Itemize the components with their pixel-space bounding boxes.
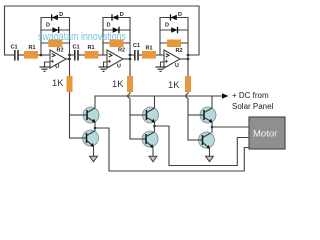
- wire: 1K-1 lead into base rail of pair1: [69, 92, 71, 138]
- wire: pair1 top collector to rail: [94, 96, 96, 108]
- transistor Q5 (pair3 top NPN): [200, 107, 216, 123]
- label D (stage 2 top): [120, 12, 124, 18]
- wire: pair2 top transistor base stub: [130, 114, 143, 116]
- svg-text:1K: 1K: [168, 79, 180, 90]
- label R1 (stage 3): [146, 46, 153, 52]
- wire: 1K-3 lead with hop over +DC rail: [186, 92, 189, 140]
- resistor R1 (stage 2): [85, 51, 99, 59]
- +DC rail arrowhead: [222, 93, 229, 99]
- ground (pair2 arrow): [149, 156, 157, 162]
- wire: pair3 top transistor base stub: [188, 114, 200, 116]
- wire: stage3 diode branch top: [160, 17, 188, 19]
- svg-text:C1: C1: [11, 45, 18, 51]
- wire: pair3 bottom emitter to ground: [209, 148, 211, 156]
- label R2 (stage 1): [57, 48, 64, 54]
- label + DC from Solar Panel: [232, 91, 274, 111]
- wire: pair3 emitter-collector junction vertical: [211, 122, 213, 133]
- svg-text:C1: C1: [73, 45, 80, 51]
- label 1K (stage 1): [52, 77, 64, 88]
- wire: pair1 output to motor: [95, 128, 249, 171]
- wire: stage1 output node vertical: [69, 18, 71, 77]
- label D (stage 3 top): [178, 12, 182, 18]
- diode D (stage 3 top, pointing left): [171, 14, 177, 20]
- wire: stage1 R2/diode box left vertical: [40, 18, 42, 56]
- label 1K (stage 3): [168, 79, 180, 90]
- op-amp U (stage 2): [107, 50, 123, 68]
- svg-text:swagatam innovations: swagatam innovations: [38, 31, 126, 43]
- label D (stage 1 second): [46, 23, 50, 29]
- transistor Q3 (pair2 top NPN): [143, 107, 159, 123]
- wire: pair1 top transistor base stub: [70, 114, 84, 116]
- node: stage2 output tap: [129, 54, 132, 61]
- label Motor: [253, 129, 277, 140]
- wire: op-amp U2 output stub: [123, 58, 130, 60]
- node: stage3 output tap: [187, 54, 190, 61]
- wire: pair1 emitter-collector junction vertical: [94, 122, 96, 131]
- svg-text:D: D: [178, 12, 182, 18]
- wire: stage1 input line: [5, 54, 51, 56]
- wire: stage1 diode branch second: [41, 29, 70, 31]
- svg-text:R1: R1: [88, 45, 95, 51]
- wire: U2 inverting input to ground: [104, 62, 108, 67]
- svg-text:R1: R1: [146, 46, 153, 52]
- wire: pair2 top collector to rail: [154, 96, 156, 108]
- label C1 (stage 2): [73, 45, 80, 51]
- label R2 (stage 2): [118, 48, 125, 54]
- diode D (stage 3 second, pointing right): [171, 27, 177, 33]
- transistor Q6 (pair3 bottom NPN): [199, 132, 215, 149]
- svg-text:R1: R1: [29, 45, 36, 51]
- svg-text:U: U: [117, 63, 121, 69]
- capacitor C1 (stage 1): [15, 50, 18, 61]
- label 1K (stage 2): [112, 78, 124, 89]
- wire: pair1 bottom emitter to ground: [93, 146, 95, 156]
- wire: pair2 output to motor: [155, 126, 250, 166]
- wire: stage3 R2 branch: [160, 42, 188, 44]
- op-amp U (stage 1): [50, 50, 66, 68]
- resistor R1 (stage 3): [142, 51, 156, 59]
- resistor R2 (stage 1): [48, 40, 62, 48]
- svg-text:Motor: Motor: [253, 129, 277, 140]
- wire: pair3 bottom transistor base stub: [188, 139, 199, 141]
- transistor Q4 (pair2 bottom NPN): [142, 131, 158, 148]
- wire: pair2 emitter-collector junction vertical: [154, 122, 156, 132]
- diode D (stage 2 top, pointing left): [112, 14, 118, 20]
- wire: stage3 output node vertical: [187, 18, 189, 77]
- wire: pair1 bottom transistor base stub: [70, 137, 83, 139]
- svg-text:Solar Panel: Solar Panel: [232, 102, 274, 111]
- svg-text:1K: 1K: [112, 78, 124, 89]
- resistor 1K (stage 2): [127, 76, 133, 92]
- label D (stage 2 second): [107, 23, 111, 29]
- wire: pair3 top collector to rail: [211, 96, 213, 108]
- ground (pair3 arrow): [206, 156, 214, 162]
- svg-text:D: D: [165, 23, 169, 29]
- watermark swagatam innovations: [38, 31, 126, 43]
- wire: stage2 output node vertical: [129, 18, 131, 77]
- svg-text:R2: R2: [176, 48, 183, 54]
- node: stage1 output tap: [68, 54, 71, 61]
- resistor R1 (stage 1): [24, 51, 38, 59]
- ground (stage 2 op-amp): [99, 67, 109, 71]
- svg-text:D: D: [107, 23, 111, 29]
- svg-text:R2: R2: [57, 48, 64, 54]
- label R1 (stage 2): [88, 45, 95, 51]
- svg-text:C1: C1: [133, 43, 140, 49]
- label C1 (stage 3): [133, 43, 140, 49]
- node: stage1 input junction: [40, 54, 43, 57]
- resistor 1K (stage 1): [67, 76, 73, 92]
- diode D (stage 1 second, pointing right): [52, 27, 58, 33]
- wire: pair2 bottom emitter to ground: [152, 147, 154, 156]
- wire: stage1 diode branch top: [41, 17, 70, 19]
- wire: U3 inverting input to ground: [161, 62, 165, 67]
- label U (stage 2): [117, 63, 121, 69]
- label R1 (stage 1): [29, 45, 36, 51]
- svg-text:D: D: [120, 12, 124, 18]
- wire: U1 inverting input to ground: [45, 62, 51, 67]
- diode D (stage 2 second, pointing right): [113, 27, 119, 33]
- resistor R2 (stage 2): [110, 40, 124, 48]
- label U (stage 1): [55, 64, 59, 70]
- ground (stage 1 op-amp): [40, 67, 50, 71]
- wire: stage3 R2/diode box left vertical: [159, 18, 161, 56]
- svg-text:D: D: [59, 12, 63, 18]
- resistor 1K (stage 3): [185, 76, 191, 92]
- wire: stage2 coupling line: [70, 54, 108, 56]
- wire: op-amp U3 output stub: [180, 58, 188, 60]
- svg-text:D: D: [46, 23, 50, 29]
- capacitor C1 (stage 3): [135, 50, 138, 61]
- wire: stage3 diode branch second: [160, 29, 188, 31]
- capacitor C1 (stage 2): [75, 50, 78, 61]
- resistor R2 (stage 3): [167, 40, 181, 48]
- transistor Q1 (pair1 top NPN): [83, 107, 99, 123]
- node: pair2 output junction: [153, 125, 156, 128]
- wire: op-amp U1 output stub: [66, 58, 70, 60]
- ground (stage 3 op-amp): [156, 67, 166, 71]
- label R2 (stage 3): [176, 48, 183, 54]
- node: pair1 output junction: [94, 127, 97, 130]
- node: pair3 output junction: [211, 126, 214, 129]
- label D (stage 3 second): [165, 23, 169, 29]
- wire: feedback loop from stage3 output around top to stage1 input: [5, 6, 200, 55]
- label D (stage 1 top): [59, 12, 63, 18]
- svg-text:+ DC from: + DC from: [232, 91, 269, 100]
- label U (stage 3): [175, 63, 179, 69]
- wire: 1K-2 lead with hop over +DC rail: [128, 92, 131, 139]
- wire: stage1 R2 branch: [41, 42, 70, 44]
- svg-text:U: U: [55, 64, 59, 70]
- wire: +DC supply rail: [95, 95, 222, 97]
- svg-text:U: U: [175, 63, 179, 69]
- wire: stage2 diode branch second: [103, 29, 130, 31]
- wire: stage3 coupling line: [130, 54, 164, 56]
- wire: stage2 R2 branch: [103, 42, 130, 44]
- label C1 (stage 1): [11, 45, 18, 51]
- wire: stage2 diode branch top: [103, 17, 130, 19]
- wire: pair2 bottom transistor base stub: [130, 138, 142, 140]
- svg-text:R2: R2: [118, 48, 125, 54]
- motor M1: [249, 117, 285, 149]
- wire: pair3 output to motor: [212, 126, 249, 128]
- svg-text:1K: 1K: [52, 77, 64, 88]
- wire: stage2 R2/diode box left vertical: [102, 18, 104, 56]
- diode D (stage 1 top, pointing left): [52, 14, 58, 20]
- ground (pair1 arrow): [90, 156, 98, 162]
- op-amp U (stage 3): [164, 50, 180, 68]
- transistor Q2 (pair1 bottom NPN): [83, 130, 99, 147]
